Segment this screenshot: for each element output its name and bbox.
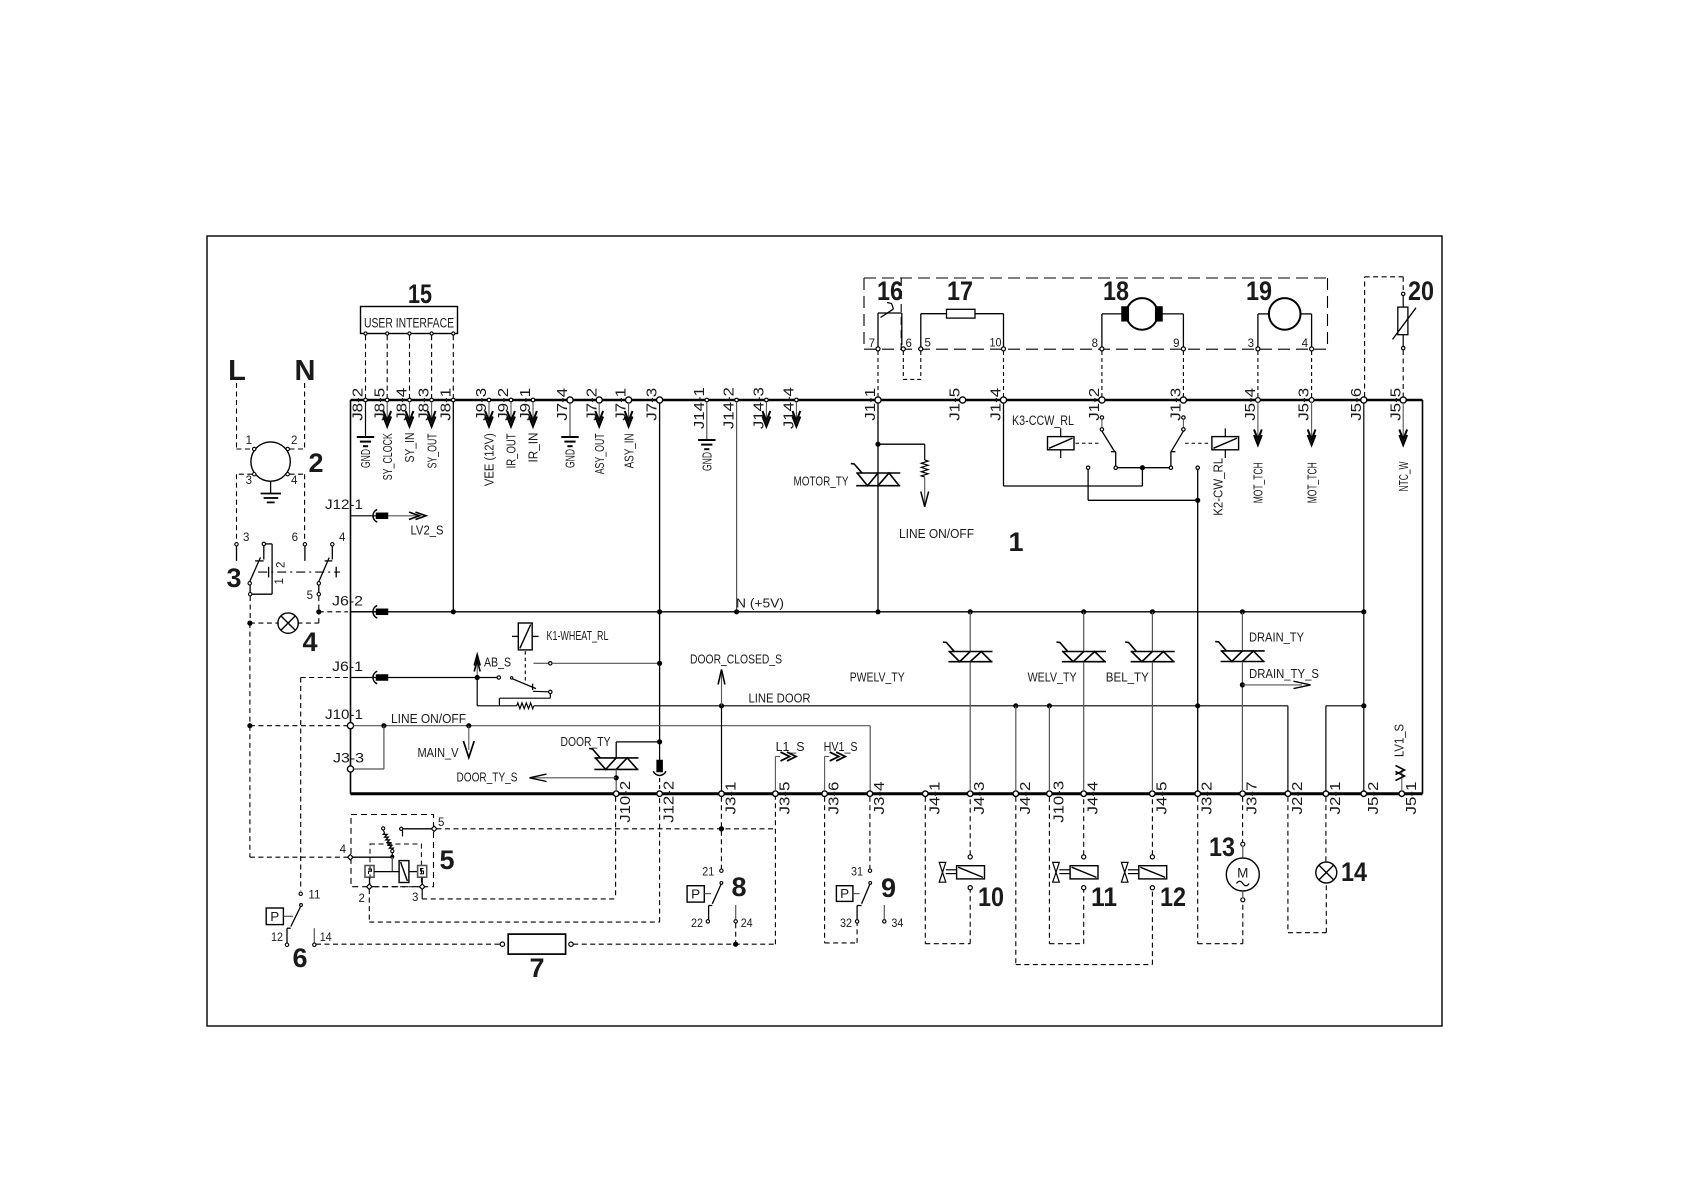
resistor 7	[500, 942, 504, 946]
svg-text:12: 12	[271, 932, 283, 944]
pin J7-1	[626, 397, 632, 403]
mains filter 2	[251, 442, 290, 481]
svg-text:SY_CLOCK: SY_CLOCK	[380, 433, 395, 480]
signal GND at J14-1	[706, 402, 708, 440]
pin J5-3	[1309, 398, 1314, 403]
pin J7-3	[657, 397, 663, 403]
solenoid valve 11	[1082, 855, 1086, 859]
svg-text:K2-CW_RL: K2-CW_RL	[1211, 458, 1226, 516]
svg-text:GND: GND	[563, 449, 578, 468]
lock ptc right	[418, 866, 427, 878]
svg-text:17: 17	[947, 276, 973, 306]
svg-text:10: 10	[978, 882, 1004, 912]
pin J7-4	[567, 397, 573, 403]
wire 6 pin14 to resistor 7	[316, 943, 500, 945]
pin J3-5	[773, 791, 779, 797]
signal HV1_S	[824, 757, 826, 792]
svg-text:1: 1	[1008, 527, 1023, 557]
svg-text:2: 2	[308, 448, 323, 478]
relay coil K2-CW_RL	[1212, 437, 1239, 450]
pin J3-2	[1195, 791, 1201, 797]
svg-text:16: 16	[877, 276, 903, 306]
wire switch3 to J6-2	[318, 596, 320, 612]
pump 13 wiring	[1242, 797, 1244, 843]
svg-text:J2-1: J2-1	[1327, 782, 1344, 815]
signal DOOR_TY_S	[530, 777, 616, 779]
svg-text:11: 11	[1091, 882, 1117, 912]
wire J8-1 to N	[452, 402, 454, 612]
svg-text:J6-2: J6-2	[332, 594, 363, 609]
signal AB_S arrow	[476, 658, 478, 678]
svg-text:L: L	[228, 355, 246, 387]
svg-text:GND: GND	[358, 449, 373, 468]
wire LINE DOOR to J10-3	[1048, 706, 1050, 792]
svg-text:18: 18	[1103, 276, 1129, 306]
pin J1-3	[1180, 397, 1186, 403]
wire J3-4 to switch 9	[869, 797, 871, 869]
svg-text:PWELV_TY: PWELV_TY	[850, 670, 905, 685]
svg-text:20: 20	[1408, 276, 1434, 306]
pin J3-4	[867, 791, 873, 797]
svg-text:MOT_TCH: MOT_TCH	[1304, 462, 1319, 503]
wire switch3 pole1 down to J10-1	[249, 596, 251, 623]
snubber resistor to LINE ON/OFF	[878, 443, 925, 445]
svg-text:AB_S: AB_S	[484, 655, 511, 670]
wire filter pin3 to switch 3	[237, 473, 253, 475]
pin J3-6	[822, 791, 828, 797]
pin J4-4	[1081, 791, 1087, 797]
svg-text:2: 2	[276, 562, 288, 568]
pin J7-2	[596, 397, 602, 403]
drawing border frame	[207, 236, 1442, 1026]
wire lamp4 left	[250, 622, 279, 624]
motor 18 with brushes	[1126, 298, 1158, 330]
svg-text:BEL_TY: BEL_TY	[1106, 670, 1149, 685]
svg-text:J12-1: J12-1	[325, 497, 363, 512]
svg-text:J3-4: J3-4	[871, 782, 888, 815]
svg-text:J8-1: J8-1	[437, 388, 454, 421]
pin J3-1	[719, 791, 725, 797]
wire filter pin4 to pin6	[290, 473, 305, 475]
svg-text:22: 22	[691, 918, 703, 930]
pin J14-4	[795, 398, 799, 402]
lamp14 wiring	[1325, 797, 1327, 862]
svg-text:J3-7: J3-7	[1244, 782, 1261, 815]
svg-text:J4-4: J4-4	[1085, 782, 1102, 815]
NC contact circle	[1086, 466, 1089, 469]
pin J8-5	[385, 398, 389, 402]
svg-text:J12-2: J12-2	[661, 781, 678, 823]
svg-text:4: 4	[339, 532, 346, 544]
wire down to lock pin4	[249, 726, 251, 858]
relay contact under J1-3	[1182, 416, 1185, 419]
relay contact under J1-2	[1100, 416, 1103, 419]
svg-text:32: 32	[840, 918, 852, 930]
pin J3-7	[1240, 791, 1246, 797]
signal arrow J14-4	[795, 402, 797, 419]
solenoid valve 12	[1150, 855, 1154, 859]
svg-text:L1_S: L1_S	[776, 739, 805, 754]
signal GND at J7-4	[569, 403, 571, 437]
wire user-interface to J8	[386, 335, 388, 398]
wire user-interface to J8	[409, 335, 411, 398]
lock pin 4	[348, 855, 353, 860]
svg-text:1: 1	[246, 435, 252, 447]
pin J8-1	[452, 398, 456, 402]
switch 9 pin 34	[883, 905, 885, 919]
svg-text:J10-3: J10-3	[1050, 781, 1067, 823]
signal LV2_S	[388, 515, 420, 517]
wire user-interface to J8	[365, 335, 367, 398]
svg-text:USER INTERFACE: USER INTERFACE	[364, 316, 454, 331]
svg-text:J1-4: J1-4	[988, 388, 1005, 421]
svg-text:LINE DOOR: LINE DOOR	[749, 691, 811, 706]
svg-text:7: 7	[529, 953, 544, 983]
svg-text:HV1_S: HV1_S	[824, 739, 858, 754]
svg-text:IR_OUT: IR_OUT	[504, 433, 519, 468]
pin J5-6	[1361, 397, 1367, 403]
svg-text:J3-5: J3-5	[776, 782, 793, 815]
pressure switch 8	[720, 869, 723, 872]
svg-text:GND: GND	[700, 452, 715, 471]
NTC sensor 20 harness	[1364, 277, 1366, 397]
svg-text:14: 14	[320, 932, 333, 944]
svg-text:31: 31	[851, 867, 863, 879]
pin J4-3	[967, 791, 973, 797]
signal L1_S	[774, 757, 776, 792]
svg-text:3: 3	[1248, 338, 1254, 350]
svg-text:9: 9	[1173, 338, 1179, 350]
svg-text:WELV_TY: WELV_TY	[1028, 670, 1077, 685]
svg-text:6: 6	[906, 338, 912, 350]
wire LINE DOOR to J4-2	[1015, 706, 1017, 792]
svg-text:J1-5: J1-5	[947, 388, 964, 421]
wire J6-1 to switch 6	[301, 677, 348, 679]
svg-text:3: 3	[412, 892, 418, 904]
svg-text:24: 24	[741, 918, 754, 930]
pin J10-2	[613, 791, 619, 797]
svg-text:4: 4	[340, 844, 347, 856]
NO contact circle	[1196, 466, 1199, 469]
svg-text:DOOR_CLOSED_S: DOOR_CLOSED_S	[690, 652, 782, 667]
pin J5-2	[1361, 791, 1367, 797]
lock ptc left	[365, 866, 374, 878]
triac DOOR_TY	[594, 757, 638, 759]
svg-text:J10-2: J10-2	[617, 781, 634, 823]
switch 6 pin 14	[313, 928, 315, 942]
svg-text:J1-1: J1-1	[862, 388, 879, 421]
tacho motor 19	[1269, 298, 1301, 330]
svg-text:NTC_W: NTC_W	[1396, 461, 1411, 491]
lock switch blade	[382, 827, 385, 830]
pin J2-2	[1285, 791, 1291, 797]
svg-text:J5-2: J5-2	[1365, 782, 1382, 815]
signal VEE (12V)	[488, 402, 490, 419]
svg-text:10: 10	[990, 338, 1002, 350]
pin J12-2	[657, 791, 663, 797]
svg-text:J4-3: J4-3	[971, 782, 988, 815]
wire 17 pin10 to J1-4	[1003, 351, 1005, 397]
svg-text:J8-2: J8-2	[350, 388, 367, 421]
svg-text:J3-2: J3-2	[1199, 782, 1216, 815]
pin J4-1	[923, 791, 929, 797]
svg-text:M: M	[1237, 866, 1248, 881]
pin J1-1	[875, 397, 881, 403]
pin J5-4	[1256, 398, 1261, 403]
pin J8-4	[408, 398, 412, 402]
NTC resistor body	[1398, 307, 1408, 335]
mains switch 3 right pole pin6	[303, 543, 306, 546]
signal ASY_IN	[628, 402, 630, 419]
svg-text:N: N	[295, 355, 316, 387]
wire lock pin2 to J12-2	[368, 889, 370, 922]
pressure switch 9	[868, 869, 871, 872]
pin J9-1	[531, 398, 535, 402]
svg-text:8: 8	[731, 872, 746, 902]
svg-text:J7-4: J7-4	[554, 388, 571, 421]
pin J4-5	[1150, 791, 1156, 797]
svg-text:3: 3	[243, 532, 249, 544]
harness dashed box 16-19	[864, 277, 1328, 279]
pin J1-2	[1099, 397, 1105, 403]
svg-text:5: 5	[439, 845, 454, 875]
svg-text:6: 6	[292, 943, 307, 973]
svg-text:J5-4: J5-4	[1242, 388, 1259, 421]
svg-text:4: 4	[1302, 338, 1309, 350]
wire N to filter pin2	[304, 383, 306, 449]
wire lamp4 right	[297, 622, 318, 624]
signal GND at J8-2	[365, 402, 367, 437]
solenoid valve 10	[968, 855, 972, 859]
wire relay common to LINE DOOR	[1197, 469, 1199, 705]
triac BEL_TY	[1151, 612, 1153, 652]
signal SY_IN	[409, 402, 411, 419]
svg-text:J5-6: J5-6	[1348, 388, 1365, 421]
svg-text:J3-6: J3-6	[826, 782, 843, 815]
pin J5-1	[1399, 791, 1405, 797]
svg-text:P: P	[270, 909, 279, 924]
pressure switch 6	[299, 892, 302, 895]
svg-text:3: 3	[246, 475, 252, 487]
svg-text:J5-5: J5-5	[1387, 388, 1404, 421]
svg-text:P: P	[840, 886, 849, 901]
signal IR_IN	[532, 402, 534, 419]
svg-text:5: 5	[438, 817, 444, 829]
svg-text:7: 7	[869, 338, 875, 350]
link pins 6-5 of 16/17	[902, 351, 904, 379]
svg-text:J2-2: J2-2	[1289, 782, 1306, 815]
svg-text:J5-1: J5-1	[1403, 782, 1420, 815]
pin J1-5	[960, 397, 966, 403]
contact common wire	[1117, 467, 1169, 469]
wire lock pin5 to J10-2	[437, 828, 776, 830]
svg-text:12: 12	[1160, 882, 1186, 912]
wire J3-6 down	[824, 797, 826, 943]
lock coil	[399, 861, 409, 883]
svg-text:J4-2: J4-2	[1017, 782, 1034, 815]
thermal switch 16	[877, 313, 879, 347]
pin J9-2	[509, 398, 513, 402]
pin J14-3	[765, 398, 769, 402]
wire J3-1 to switch 8	[720, 797, 722, 869]
lock pin 5	[431, 826, 436, 831]
svg-text:LV1_S: LV1_S	[1391, 724, 1406, 757]
lock pin 2	[369, 877, 371, 884]
wire resistor7 to J3-5	[573, 943, 775, 945]
wire J5-6 neutral column	[1363, 403, 1365, 792]
switch 3 mechanical link	[258, 571, 340, 573]
svg-text:J4-5: J4-5	[1153, 782, 1170, 815]
valve12 wiring	[1015, 797, 1017, 965]
wire user-interface to J8	[431, 335, 433, 398]
triac WELV_TY	[1083, 612, 1085, 652]
svg-text:19: 19	[1246, 276, 1272, 306]
svg-text:13: 13	[1209, 832, 1235, 862]
pin J9-3	[487, 398, 491, 402]
wire J1-1 down	[877, 403, 879, 612]
svg-text:15: 15	[408, 279, 432, 309]
svg-text:6: 6	[292, 532, 298, 544]
svg-text:SY_IN: SY_IN	[402, 433, 417, 463]
svg-text:J5-3: J5-3	[1296, 388, 1313, 421]
net LINE DOOR	[476, 678, 478, 706]
wire L to filter pin1	[236, 383, 238, 449]
lock pin 3	[421, 877, 423, 884]
svg-text:P: P	[691, 886, 700, 901]
K1 contact switch	[497, 676, 500, 679]
svg-text:DRAIN_TY_S: DRAIN_TY_S	[1249, 666, 1319, 681]
signal LV1_S	[1401, 770, 1403, 792]
svg-text:J3-1: J3-1	[723, 782, 740, 815]
svg-text:J10-1: J10-1	[325, 707, 363, 722]
wire LINE DOOR to J2-2	[1287, 706, 1289, 792]
wire J1-4 motor common	[1003, 403, 1005, 486]
svg-text:4: 4	[291, 475, 298, 487]
mains switch 3 right pole	[331, 543, 334, 546]
connector J12-2 icon	[659, 742, 661, 760]
user interface box U15	[361, 307, 458, 334]
pin J2-1	[1323, 791, 1329, 797]
svg-text:J4-1: J4-1	[926, 782, 943, 815]
svg-text:LV2_S: LV2_S	[411, 523, 444, 538]
svg-text:14: 14	[1341, 857, 1367, 887]
svg-text:ASY_OUT: ASY_OUT	[592, 433, 607, 474]
wire J3-3 to MAIN_V	[354, 768, 384, 770]
svg-text:2: 2	[291, 435, 297, 447]
main control board 1 outline	[351, 399, 1423, 402]
pin J14-1	[705, 398, 709, 402]
svg-text:LINE ON/OFF: LINE ON/OFF	[899, 526, 974, 541]
svg-text:2: 2	[359, 893, 365, 905]
wire J14-2 to N	[736, 402, 738, 612]
valve10 wiring	[924, 797, 926, 944]
svg-text:DRAIN_TY: DRAIN_TY	[1249, 630, 1304, 645]
svg-text:J14-1: J14-1	[691, 387, 708, 429]
svg-text:J7-3: J7-3	[644, 388, 661, 421]
svg-text:11: 11	[308, 890, 320, 902]
switch 8 pin 24	[735, 905, 737, 919]
triac DRAIN_TY	[1241, 612, 1243, 651]
svg-text:5: 5	[925, 338, 931, 350]
svg-text:IR_IN: IR_IN	[526, 433, 541, 463]
K1 contact return wire	[549, 694, 551, 699]
pin J4-2	[1013, 791, 1019, 797]
signal SY_OUT	[431, 402, 433, 419]
net MAIN_V line	[354, 725, 871, 727]
K1 NO contact wire to neutral	[534, 662, 549, 664]
svg-text:LINE ON/OFF: LINE ON/OFF	[391, 711, 466, 726]
signal MOT_TCH at J5-4	[1257, 402, 1259, 437]
wire LINE DOOR to J3-1	[721, 706, 723, 792]
svg-text:J3-3: J3-3	[333, 751, 364, 766]
signal DRAIN_TY_S	[1242, 684, 1302, 686]
svg-text:4: 4	[302, 627, 317, 657]
pin J10-3	[1047, 791, 1053, 797]
lamp 4	[278, 613, 298, 633]
drain pump motor 13	[1226, 858, 1259, 891]
svg-text:21: 21	[702, 867, 714, 879]
svg-text:MOT_TCH: MOT_TCH	[1251, 462, 1266, 503]
wire user-interface to J8	[452, 335, 454, 398]
svg-text:K1-WHEAT_RL: K1-WHEAT_RL	[547, 628, 609, 643]
svg-text:DOOR_TY: DOOR_TY	[561, 734, 611, 749]
wire 16 pin7 to J1-1	[877, 351, 879, 397]
svg-text:VEE (12V): VEE (12V)	[482, 433, 497, 486]
signal SY_CLOCK	[386, 402, 388, 419]
triac PWELV_TY	[969, 612, 971, 652]
resistor 17	[920, 314, 922, 347]
earth ground of filter 2	[270, 481, 272, 493]
triac MOTOR_TY	[856, 472, 900, 474]
signal MAIN_V arrow	[468, 726, 470, 750]
pin J1-4	[1000, 397, 1006, 403]
svg-text:ASY_IN: ASY_IN	[621, 433, 636, 468]
net N (+5V)	[351, 611, 1364, 613]
svg-text:1: 1	[274, 578, 286, 584]
relay coil K1-WHEAT_RL	[518, 623, 532, 650]
svg-text:MAIN_V: MAIN_V	[418, 745, 459, 760]
svg-text:34: 34	[891, 918, 904, 930]
svg-text:K3-CCW_RL: K3-CCW_RL	[1012, 413, 1074, 428]
signal NTC_W at J5-5	[1402, 403, 1404, 437]
signal arrow J14-3	[765, 402, 767, 419]
svg-text:N (+5V): N (+5V)	[736, 596, 784, 611]
svg-text:9: 9	[881, 873, 896, 903]
svg-text:MOTOR_TY: MOTOR_TY	[794, 474, 849, 489]
svg-text:DOOR_TY_S: DOOR_TY_S	[457, 770, 518, 785]
signal IR_OUT	[510, 402, 512, 419]
mains switch 3 pin3	[235, 543, 238, 546]
wire J7-3 down	[659, 403, 661, 742]
wire lock pin3 to J10-2 column	[421, 889, 423, 899]
valve11 wiring	[1048, 797, 1050, 944]
lamp 14	[1316, 862, 1337, 883]
wire J2-1 to LINE DOOR	[1325, 706, 1327, 792]
svg-text:J14-2: J14-2	[721, 387, 738, 429]
svg-text:5: 5	[307, 590, 313, 602]
pin J8-2	[364, 398, 368, 402]
svg-text:8: 8	[1092, 338, 1098, 350]
signal DOOR_CLOSED_S	[721, 670, 723, 706]
pin J14-2	[735, 398, 739, 402]
svg-text:SY_OUT: SY_OUT	[424, 433, 439, 468]
mains switch 3 left pole	[262, 542, 265, 545]
pin J8-3	[430, 398, 434, 402]
signal MOT_TCH at J5-3	[1311, 402, 1313, 437]
door lock 5 outer box	[351, 815, 434, 887]
svg-text:3: 3	[226, 563, 241, 593]
svg-text:J6-1: J6-1	[332, 659, 363, 674]
